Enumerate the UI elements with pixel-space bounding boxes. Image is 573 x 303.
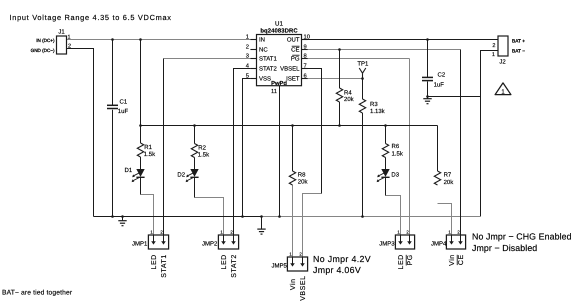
svg-text:1uF: 1uF [118, 108, 129, 115]
svg-text:1.13k: 1.13k [370, 108, 386, 115]
svg-text:STAT2: STAT2 [231, 254, 238, 278]
svg-text:PwPd: PwPd [271, 80, 287, 87]
svg-text:LED: LED [151, 254, 158, 269]
svg-text:PG: PG [407, 254, 414, 265]
svg-text:CE: CE [458, 254, 465, 265]
svg-text:VSS: VSS [259, 76, 271, 83]
svg-text:TP1: TP1 [357, 60, 369, 67]
svg-text:No Jmpr 4.2V: No Jmpr 4.2V [313, 254, 371, 264]
svg-text:9: 9 [304, 43, 307, 50]
svg-text:10: 10 [304, 33, 310, 40]
svg-text:LED: LED [398, 254, 405, 269]
svg-text:1.5k: 1.5k [392, 150, 404, 157]
svg-text:OUT: OUT [287, 37, 300, 44]
svg-text:BAT +: BAT + [512, 38, 525, 44]
svg-text:IN: IN [259, 37, 265, 44]
svg-text:J1: J1 [58, 29, 65, 36]
svg-text:20k: 20k [344, 96, 355, 103]
svg-text:bq24083DRC: bq24083DRC [260, 27, 298, 34]
svg-text:STAT1: STAT1 [161, 254, 168, 278]
svg-text:JMP4: JMP4 [431, 241, 447, 248]
svg-text:D2: D2 [177, 171, 185, 178]
svg-text:U1: U1 [275, 21, 283, 28]
svg-text:PG: PG [291, 56, 300, 63]
svg-text:R8: R8 [298, 172, 306, 179]
svg-text:1uF: 1uF [434, 81, 445, 88]
svg-text:2: 2 [492, 43, 495, 49]
svg-text:VBSEL: VBSEL [300, 275, 307, 300]
svg-text:IN (DC+): IN (DC+) [36, 38, 55, 43]
svg-text:Vin: Vin [289, 278, 297, 290]
svg-text:ISET: ISET [286, 76, 300, 83]
svg-text:1.5k: 1.5k [198, 151, 210, 158]
svg-text:R6: R6 [392, 143, 400, 150]
svg-text:R2: R2 [198, 144, 206, 151]
svg-text:CE: CE [291, 47, 299, 54]
svg-text:1.5k: 1.5k [144, 151, 156, 158]
svg-text:D1: D1 [125, 167, 133, 174]
svg-text:D3: D3 [391, 172, 399, 179]
svg-text:LED: LED [221, 254, 228, 269]
svg-text:R3: R3 [370, 101, 378, 108]
svg-text:VBSEL: VBSEL [280, 66, 300, 73]
svg-text:C1: C1 [120, 98, 128, 105]
svg-text:JMP2: JMP2 [202, 241, 218, 248]
svg-text:NC: NC [259, 47, 268, 54]
svg-text:JMP1: JMP1 [132, 241, 148, 248]
svg-text:20k: 20k [444, 179, 455, 186]
svg-text:J2: J2 [499, 59, 506, 66]
svg-text:R7: R7 [444, 171, 452, 178]
svg-text:2: 2 [246, 43, 249, 50]
svg-text:BAT− are tied together: BAT− are tied together [2, 290, 73, 297]
svg-text:5: 5 [246, 73, 249, 79]
svg-text:C2: C2 [438, 72, 446, 79]
svg-text:R4: R4 [344, 90, 352, 97]
svg-text:Vin: Vin [448, 254, 456, 266]
svg-text:Jmpr 4.06V: Jmpr 4.06V [313, 265, 361, 275]
svg-text:No Jmpr − CHG Enabled: No Jmpr − CHG Enabled [472, 232, 572, 242]
svg-text:2: 2 [68, 44, 71, 50]
svg-text:11: 11 [271, 89, 277, 95]
svg-text:7: 7 [304, 63, 307, 69]
svg-text:8: 8 [304, 52, 307, 59]
svg-text:JMP5: JMP5 [271, 263, 287, 270]
svg-text:STAT2: STAT2 [259, 66, 277, 73]
svg-text:1: 1 [492, 52, 495, 58]
svg-text:JMP3: JMP3 [379, 241, 395, 248]
svg-text:Input Voltage Range 4.35 to 6.: Input Voltage Range 4.35 to 6.5 VDCmax [10, 13, 172, 22]
svg-text:6: 6 [304, 72, 307, 79]
svg-text:1: 1 [68, 35, 71, 41]
svg-text:R1: R1 [144, 144, 152, 151]
svg-text:GND (DC−): GND (DC−) [31, 48, 55, 53]
svg-text:STAT1: STAT1 [259, 56, 277, 63]
svg-text:BAT −: BAT − [512, 48, 525, 54]
svg-text:3: 3 [246, 52, 249, 59]
svg-text:20k: 20k [298, 179, 309, 186]
svg-text:Jmpr − Disabled: Jmpr − Disabled [472, 243, 537, 253]
svg-text:1: 1 [246, 34, 249, 40]
